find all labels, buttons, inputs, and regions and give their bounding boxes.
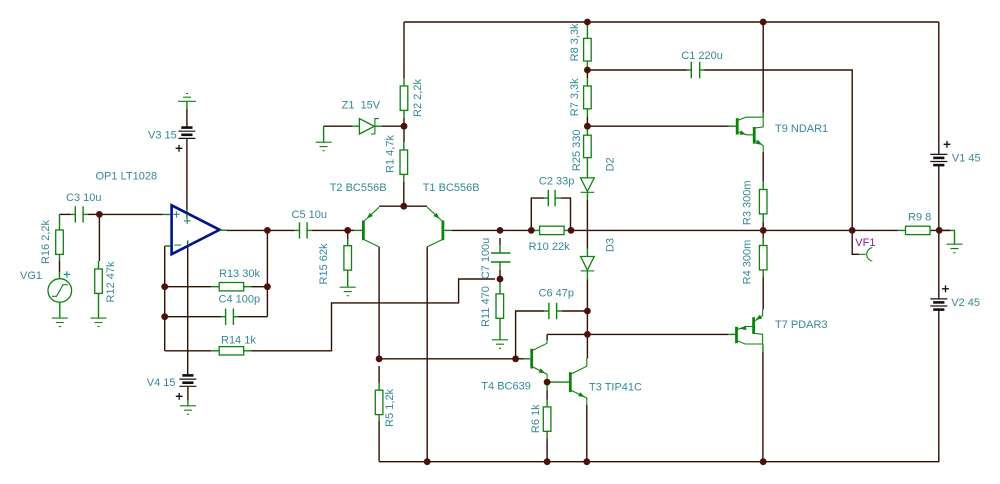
svg-text:C4 100p: C4 100p (219, 294, 261, 306)
junction bottom rail T1 (424, 458, 431, 465)
svg-text:C5 10u: C5 10u (292, 209, 327, 221)
junction R13 right (264, 283, 271, 290)
svg-text:R13 30k: R13 30k (219, 268, 260, 280)
ground of R15 (340, 287, 356, 296)
plus of V2 (942, 285, 949, 292)
resistor R3 (759, 181, 767, 222)
ground of R11 (492, 340, 508, 349)
svg-text:R11 470: R11 470 (480, 286, 492, 327)
resistor R4 (759, 238, 767, 278)
svg-text:T4 BC639: T4 BC639 (481, 381, 531, 393)
junction T4 base C6 (512, 355, 519, 362)
ground above V3 (178, 93, 196, 109)
ground right of R9 (947, 230, 963, 252)
junction T2 collector R5 T4 (376, 355, 383, 362)
junction C7 R11 feedback (497, 276, 504, 283)
wire R2 bottom to Z1 node (403, 118, 405, 126)
wire R7 bottom to T9 base node (586, 117, 588, 126)
junction bottom rail R6 (544, 458, 551, 465)
svg-text:Z1 15V: Z1 15V (342, 100, 381, 112)
capacitor C5 (295, 222, 312, 238)
wire op-amp output column down to C4 (266, 230, 268, 316)
wire V2 top from output node (938, 230, 940, 298)
svg-text:T1 BC556B: T1 BC556B (423, 182, 480, 194)
wire T9 emitter down to R3 (762, 152, 764, 181)
plus of VG1 (64, 271, 70, 277)
svg-text:D2: D2 (605, 157, 617, 171)
wire T7 base row (587, 333, 728, 335)
resistor R11 (496, 279, 504, 340)
svg-text:R16 2,2k: R16 2,2k (40, 219, 52, 264)
zener Z1 (352, 119, 382, 134)
wire Z1 node to R1 top (403, 126, 405, 142)
junction R9 V1 V2 (936, 227, 943, 234)
wire emitter rail of T2 T1 (379, 205, 427, 207)
resistor R9 (898, 226, 932, 234)
capacitor C3 (71, 206, 88, 222)
wire R14 row left (165, 350, 211, 352)
wire T1 collector column down to bottom rail (426, 247, 428, 462)
ground below V4 (180, 400, 196, 414)
wire C2 branch right riser (561, 198, 571, 230)
darlington T9 (729, 113, 764, 153)
wire V4 bottom stem to ground (187, 387, 189, 400)
resistor R16 (56, 214, 64, 261)
junction bottom rail T3 (583, 458, 590, 465)
wire V2 bottom to bottom rail corner (938, 310, 940, 462)
probe VF1 (859, 248, 872, 261)
wire T4 collector row to driver node (547, 333, 587, 335)
wire V1 bottom to output node (938, 166, 940, 231)
diode D2 (581, 170, 595, 201)
svg-text:D3: D3 (605, 238, 617, 252)
wire C1 row right and bootstrap column down to output (705, 70, 853, 230)
wire R12 column from junction (98, 214, 100, 261)
svg-text:T2 BC556B: T2 BC556B (330, 182, 387, 194)
svg-text:R25 330: R25 330 (571, 130, 583, 172)
plus of V1 (944, 141, 951, 148)
junction output rail VF1 C1 (849, 227, 856, 234)
junction bottom rail T7 (760, 458, 767, 465)
wire op-amp top supply pin entering triangle (186, 210, 188, 214)
resistor R12 (95, 261, 103, 318)
junction C2 left R10 left (528, 227, 535, 234)
generator VG1 (48, 272, 72, 318)
wire R4 bottom to T7 emitter (762, 278, 764, 310)
svg-text:R14 1k: R14 1k (221, 335, 256, 347)
resistor R10 (531, 226, 571, 234)
plus of V4 (176, 393, 183, 400)
svg-text:T7 PDAR3: T7 PDAR3 (775, 319, 828, 331)
battery V2 (930, 299, 947, 310)
transistor T3 (547, 359, 587, 406)
junction C6 right D3 (584, 308, 591, 315)
svg-text:V4 15: V4 15 (147, 377, 176, 389)
wire right ground stub from battery node (939, 229, 950, 231)
wire C2 branch left riser (531, 198, 544, 230)
svg-text:R10 22k: R10 22k (529, 241, 570, 253)
wire input rail VG1 column (60, 213, 71, 215)
wire R16 bottom to VG1 top (59, 261, 61, 272)
resistor R15 (344, 239, 352, 287)
junction top rail R8 (584, 19, 591, 26)
plus of V3 (176, 145, 183, 152)
wire C4 row left (165, 316, 221, 318)
wire R13 row right (252, 286, 268, 288)
wire bottom negative rail (379, 461, 939, 463)
wire V3 plus down to op-amp supply pin (186, 139, 188, 210)
svg-text:R9 8: R9 8 (908, 212, 931, 224)
wire T3 collector column to driver node (586, 334, 588, 358)
wire V3 minus stem to ground (186, 109, 188, 127)
transistor T4 (524, 340, 548, 382)
wire R14 to feedback node under C7 (252, 279, 496, 351)
junction opamp output (264, 227, 271, 234)
junction R8 R7 C1 (584, 67, 591, 74)
resistor R1 (400, 142, 408, 182)
wire C7 bottom to feedback node (499, 270, 501, 279)
transistor T1 (427, 207, 452, 247)
wire op-amp bottom supply pin stub (187, 246, 189, 248)
capacitor C2 (544, 190, 561, 206)
junction C3 R12 opamp (96, 211, 103, 218)
wire C7 top lead (499, 238, 501, 245)
wire output rail from R10 to right (571, 229, 898, 231)
wire C6 left column to T4 base node (516, 311, 545, 359)
junction R13 left (161, 283, 168, 290)
wire T2 collector node to T4 base (379, 358, 515, 360)
svg-text:R7 3,3k: R7 3,3k (569, 78, 581, 116)
svg-text:R6 1k: R6 1k (530, 404, 542, 433)
wire R6 bottom to bottom rail (546, 439, 548, 462)
wire R3 bottom to output rail (762, 222, 764, 230)
junction driver node D3 T3 T4 T7 (584, 331, 591, 338)
ground of Z1 (316, 126, 332, 151)
wire R13 row left (165, 286, 211, 288)
battery V3 (178, 128, 195, 139)
wire T3 emitter column to bottom rail (586, 405, 588, 462)
svg-text:C3 10u: C3 10u (66, 192, 101, 204)
diode D3 (581, 249, 595, 280)
wire top positive rail (404, 21, 939, 23)
svg-text:C2 33p: C2 33p (539, 175, 574, 187)
wire junction to op-amp plus input (99, 213, 162, 215)
wire R7 top from C1 node (586, 70, 588, 78)
wire Z1 cathode to node (382, 125, 404, 127)
capacitor C4 (221, 309, 238, 325)
wire C3 right plate to junction (88, 213, 99, 215)
wire C6 right lead to diode column (562, 310, 587, 312)
wire T9 collector column from top rail (762, 22, 764, 113)
svg-text:C7 100u: C7 100u (480, 238, 492, 280)
battery V1 (930, 154, 947, 165)
wire op-amp output to C5 (227, 229, 295, 231)
svg-text:R5 1,2k: R5 1,2k (384, 388, 396, 426)
transistor T2 (354, 207, 379, 247)
junction T1 base C7 (497, 227, 504, 234)
wire T4 base row (516, 358, 524, 360)
svg-text:V3 15: V3 15 (148, 129, 177, 141)
svg-text:VF1: VF1 (855, 237, 875, 249)
wire R6 mid lead (546, 391, 548, 400)
svg-text:R8 3,3k: R8 3,3k (569, 23, 581, 61)
svg-text:R4 300m: R4 300m (742, 240, 754, 285)
ground of R12 (91, 318, 107, 327)
wire T4 collector riser (546, 334, 548, 340)
wire V1 column from top rail to battery (938, 22, 940, 154)
junction emitter rail R1 (400, 203, 407, 210)
wire R5 top from node (378, 366, 380, 383)
capacitor C7 (491, 245, 511, 270)
wire output rail down to R4 (762, 230, 764, 238)
wire R9 right lead to V1 V2 node (931, 229, 950, 231)
capacitor C1 (687, 62, 705, 78)
wire R15 top from node (347, 230, 349, 239)
wire VF1 probe stub (852, 230, 859, 254)
svg-text:T9 NDAR1: T9 NDAR1 (775, 123, 828, 135)
junction C2 right R10 right (568, 227, 575, 234)
svg-text:R12 47k: R12 47k (105, 261, 117, 302)
wire R1 bottom to emitter rail (403, 182, 405, 206)
wire R5 bottom to bottom rail (378, 421, 380, 462)
wire op-amp bottom supply pin to V4 (187, 247, 189, 375)
op-amp OP1 (163, 205, 228, 254)
junction Z1 R2 R1 (401, 123, 408, 130)
wire Z1 anode lead from ground stem (324, 125, 352, 127)
resistor R13 (211, 283, 252, 291)
capacitor C6 (544, 303, 562, 319)
svg-text:R2 2,2k: R2 2,2k (412, 79, 424, 117)
wire op-amp inverting input down the feedback column (164, 246, 166, 351)
resistor R2 (400, 78, 408, 118)
svg-text:V1 45: V1 45 (952, 153, 981, 165)
resistor R6 (543, 382, 551, 438)
junction C4 left (161, 313, 168, 320)
svg-text:R15 62k: R15 62k (318, 243, 330, 284)
wire C1 row left (587, 69, 686, 71)
wire T2 base node stub (348, 229, 354, 231)
junction output rail R3 R4 (760, 227, 767, 234)
wire D2 to D3 link crossing output rail (586, 200, 588, 249)
svg-text:OP1 LT1028: OP1 LT1028 (96, 170, 158, 182)
wire D3 cathode down to C6 node (586, 280, 588, 312)
wire C5 right plate to T2 base node (312, 229, 348, 231)
resistor R5 (375, 383, 383, 422)
resistor R7 (584, 78, 592, 117)
resistor R25 (584, 126, 592, 169)
junction top rail T9 (760, 19, 767, 26)
wire C6 node down to driver node (586, 311, 588, 334)
wire T7 collector column to bottom rail (762, 352, 764, 462)
svg-text:C6 47p: C6 47p (539, 287, 574, 299)
svg-text:T3 TIP41C: T3 TIP41C (589, 382, 642, 394)
wire T2 collector column down (378, 247, 380, 359)
junction T2 base R15 (344, 227, 351, 234)
svg-text:V2 45: V2 45 (951, 297, 980, 309)
svg-text:R1 4,7k: R1 4,7k (385, 135, 397, 173)
svg-text:VG1: VG1 (20, 270, 42, 282)
svg-text:R3 300m: R3 300m (742, 180, 754, 225)
resistor R14 (211, 347, 252, 355)
svg-text:C1 220u: C1 220u (681, 50, 723, 62)
resistor R8 (584, 22, 592, 70)
wire T1 base to feedback divider node (452, 229, 531, 231)
junction R7 R25 T9 base (584, 123, 591, 130)
wire T9 base row (587, 125, 728, 127)
darlington T7 (728, 310, 763, 353)
wire R2 column from top rail (403, 22, 405, 78)
wire C4 row right (238, 316, 267, 318)
battery V4 (179, 375, 196, 386)
junction T4 emitter R6 T3 base (544, 379, 551, 386)
ground of VG1 (52, 318, 68, 327)
